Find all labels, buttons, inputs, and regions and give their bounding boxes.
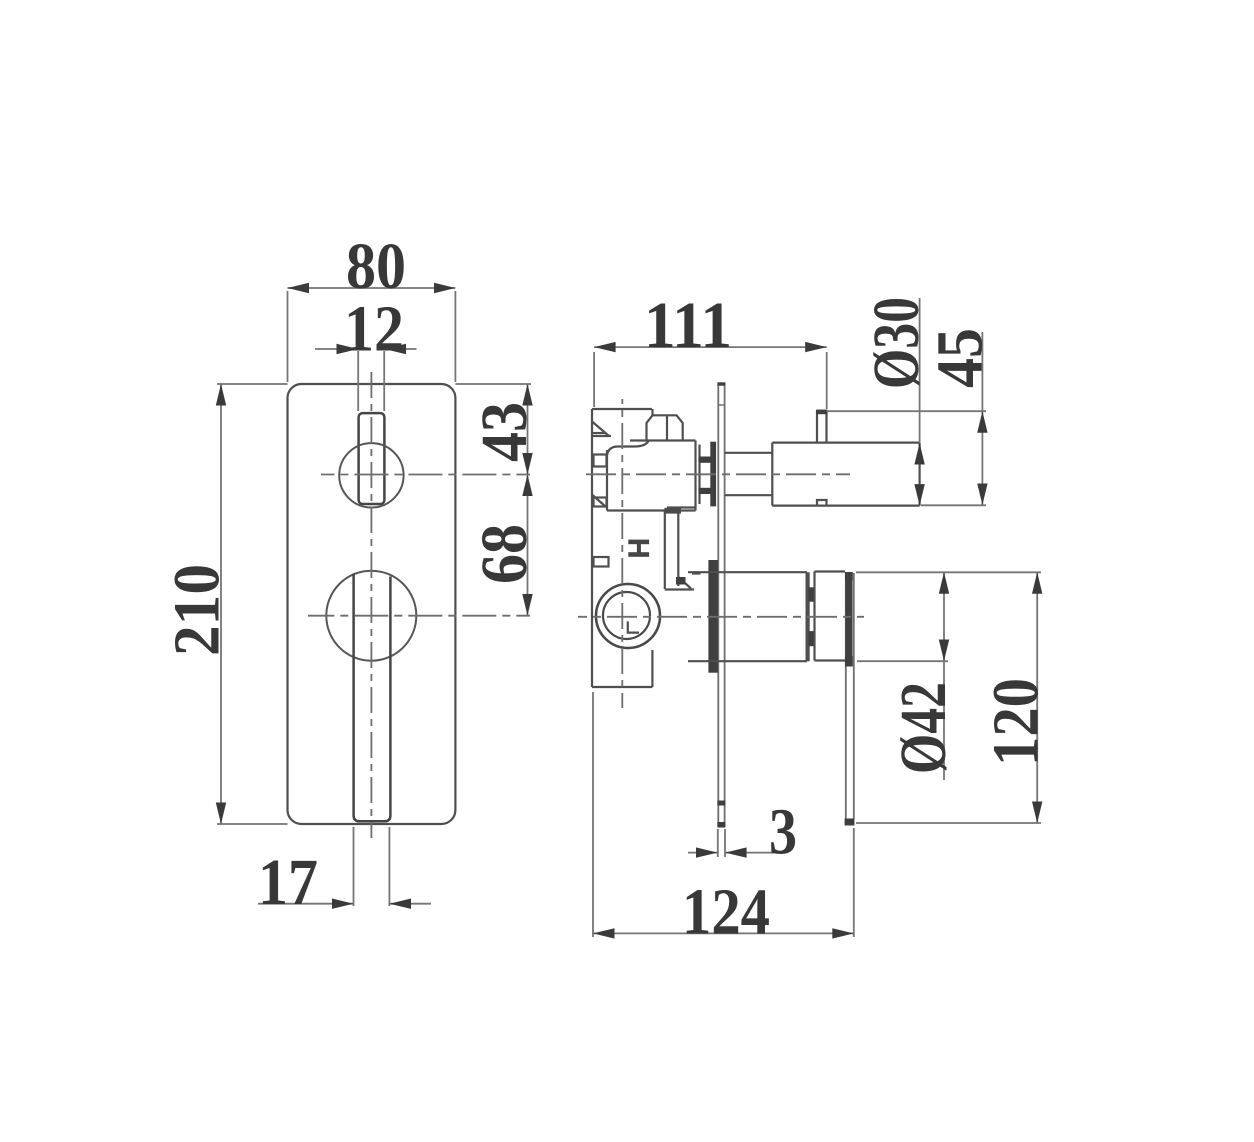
- dimension 43: [468, 384, 541, 616]
- svg-text:120: 120: [980, 678, 1053, 766]
- vertical centerline left view: [370, 369, 372, 838]
- body top edge: [592, 408, 652, 410]
- svg-text:210: 210: [161, 564, 234, 656]
- svg-text:45: 45: [924, 328, 997, 388]
- body top-left chamfer: [592, 422, 609, 437]
- side port inner circle: [603, 592, 650, 639]
- lower handle base cylinder (Ø42): [688, 572, 809, 661]
- dimension 12: [315, 293, 417, 412]
- plate bottom edge extension line left: [217, 823, 288, 825]
- svg-text:124: 124: [682, 876, 770, 949]
- bottom circle (handle base): [326, 571, 416, 661]
- lever hub: [815, 572, 846, 661]
- svg-text:Ø30: Ø30: [860, 297, 933, 389]
- plate top edge extension line left: [217, 383, 288, 385]
- cartridge dome: [607, 441, 649, 455]
- mid section verticals: [664, 511, 666, 590]
- top knob stem front: [359, 413, 385, 504]
- knob bottom lug: [817, 500, 827, 506]
- svg-text:Ø42: Ø42: [887, 682, 960, 774]
- dimension 80: [288, 230, 456, 382]
- lower assembly horizontal centerline: [578, 616, 864, 618]
- body top inner line: [592, 435, 611, 437]
- svg-text:12: 12: [344, 293, 404, 366]
- step line: [667, 506, 696, 508]
- dimension 68: [468, 475, 541, 616]
- svg-text:111: 111: [644, 289, 732, 362]
- plate top edge extension line right (to dim 43): [455, 383, 531, 385]
- valve vertical centerline: [621, 399, 623, 708]
- dimension 17: [258, 827, 431, 919]
- notch inside side port: [628, 621, 639, 632]
- dimension 111: [594, 289, 827, 409]
- svg-text:17: 17: [258, 846, 318, 919]
- lever arm (side view): [845, 572, 855, 826]
- body left edge: [591, 409, 593, 687]
- boss-to-base junction diagonals: [678, 574, 700, 589]
- bottom edge of lower rect: [592, 686, 652, 688]
- dimension Ø30: [860, 297, 933, 506]
- bracket bar upper: [699, 457, 713, 463]
- body right edge: [694, 441, 696, 511]
- top flange (rosette) behind plate: [710, 442, 716, 507]
- lower flange (rosette) behind plate: [708, 560, 718, 673]
- top assembly horizontal centerline: [586, 473, 850, 475]
- valve body outline: [592, 409, 696, 687]
- knob top lug: [817, 411, 827, 443]
- top circle (diverter knob base): [339, 443, 403, 507]
- top knob cylinder (Ø30 x 45): [772, 443, 919, 506]
- bottom circle horizontal centerline: [308, 615, 530, 617]
- bottom boss rect right edge: [651, 650, 653, 687]
- body top surface: [630, 439, 696, 441]
- wall plate side view: [717, 382, 725, 827]
- H marking: [628, 540, 649, 557]
- cartridge stem section line: [698, 445, 700, 505]
- body bottom edge of main block: [607, 509, 696, 511]
- lever handle front (long): [354, 574, 391, 822]
- top stem through plate: [725, 453, 773, 495]
- svg-text:68: 68: [468, 524, 541, 584]
- dimension 120: [856, 572, 1053, 823]
- top circle horizontal centerline: [321, 474, 530, 476]
- dimension 3 (plate thickness): [688, 796, 797, 869]
- top port on body: [647, 409, 683, 441]
- joint notches: [809, 587, 816, 601]
- svg-text:43: 43: [468, 402, 541, 462]
- side port boss outer circle: [596, 584, 660, 648]
- dimension 45: [827, 328, 997, 505]
- plate front view (rounded rectangle 80x210): [288, 384, 456, 824]
- back inlet stubs (left side): [592, 433, 609, 567]
- dimension Ø42: [857, 572, 960, 780]
- dimension 210: [161, 384, 234, 824]
- body bottom-left chamfer: [593, 495, 607, 507]
- bracket bar lower: [699, 488, 713, 494]
- dimension 124: [593, 692, 854, 949]
- svg-text:3: 3: [769, 796, 797, 869]
